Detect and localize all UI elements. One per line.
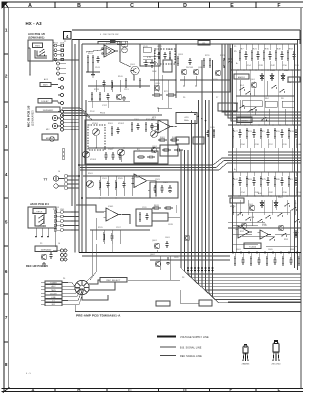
svg-text:TT: TT — [44, 178, 48, 182]
svg-text:TC4066: TC4066 — [249, 247, 256, 249]
svg-text:MIC: MIC — [52, 304, 56, 306]
svg-text:P6: P6 — [183, 97, 185, 99]
svg-text:Q602: Q602 — [150, 254, 155, 256]
svg-text:2SC1740: 2SC1740 — [271, 364, 281, 366]
svg-text:R301: R301 — [108, 123, 113, 125]
svg-text:R221: R221 — [220, 55, 225, 57]
svg-text:6: 6 — [5, 269, 8, 274]
wire P102 rail — [84, 114, 162, 116]
svg-text:R501: R501 — [88, 173, 93, 175]
junction dots trunk tops — [191, 111, 193, 113]
connector P101 pin column circles — [54, 44, 57, 47]
resistors C2 row — [177, 56, 179, 58]
svg-text:C103: C103 — [95, 67, 100, 69]
svg-text:B: B — [77, 3, 81, 9]
svg-text:R101: R101 — [88, 53, 93, 55]
svg-text:VR103: VR103 — [90, 159, 96, 161]
wire bend upper-left of opamp IC401 — [76, 205, 104, 212]
wires mic to main — [64, 115, 80, 117]
svg-text:IC101: IC101 — [106, 43, 111, 45]
caps row C4 bottom — [105, 152, 107, 155]
svg-text:R611: R611 — [154, 205, 159, 207]
svg-text:P5: P5 — [234, 46, 236, 48]
wire right section spine — [232, 44, 234, 252]
svg-text:C309: C309 — [108, 149, 113, 151]
svg-text:R403: R403 — [172, 137, 177, 139]
transistor Q503 — [278, 225, 284, 231]
svg-text:DECK: DECK — [37, 212, 44, 214]
corner diagonal bottom-left — [4, 388, 8, 391]
svg-text:Q601: Q601 — [152, 240, 157, 242]
wire trunk junction dots row — [187, 267, 189, 269]
svg-text:MPX: MPX — [151, 119, 156, 121]
svg-text:J3: J3 — [57, 102, 59, 104]
label box REC HR — [35, 246, 57, 252]
svg-text:Q301: Q301 — [250, 79, 255, 81]
wire right area bus y70 with junction dots — [230, 69, 301, 71]
svg-text:C201: C201 — [157, 46, 162, 48]
svg-text:Q101: Q101 — [130, 64, 135, 66]
wire right area bus y125 with junction dots — [228, 124, 301, 126]
connector mating dashed lines — [57, 45, 61, 47]
main pcb inner top edge — [82, 43, 298, 45]
svg-text:7: 7 — [5, 315, 8, 320]
svg-text:R113: R113 — [94, 89, 99, 91]
trimmer VR103 — [83, 151, 90, 158]
junction dots C2 — [175, 79, 177, 81]
opamp IC201 — [158, 120, 170, 133]
svg-text:R201: R201 — [168, 49, 173, 51]
svg-text:C521: C521 — [155, 179, 160, 181]
switch SW1 label box — [33, 43, 43, 48]
label P102 box on rail — [117, 41, 125, 45]
capacitor C105 — [145, 60, 147, 63]
svg-text:R305: R305 — [146, 119, 151, 121]
svg-text:TAPE: TAPE — [51, 289, 57, 292]
mic jack R — [52, 123, 57, 128]
opamp IC301 — [134, 174, 147, 188]
wire bundle signal lines middle — [80, 158, 301, 165]
wire rail y198 — [86, 197, 160, 199]
svg-text:LA3161: LA3161 — [241, 120, 247, 123]
svg-text:MIC: MIC — [46, 129, 50, 131]
svg-text:C611: C611 — [174, 257, 179, 259]
svg-text:C405: C405 — [210, 127, 215, 129]
signal label box ladder — [45, 281, 62, 284]
wires around Q101 — [119, 52, 121, 62]
svg-text:VOLTAGE SUPPLY LINE: VOLTAGE SUPPLY LINE — [180, 336, 209, 339]
connector mic pins dark — [61, 114, 64, 117]
svg-text:P8: P8 — [182, 277, 184, 279]
wires right midsection — [232, 233, 252, 235]
label box REC SELECT — [100, 278, 127, 283]
wires phono to pins — [61, 178, 65, 180]
svg-text:C517: C517 — [116, 227, 121, 229]
grid column ticks bottom — [54, 388, 56, 391]
svg-text:AUX PCB 1/5: AUX PCB 1/5 — [28, 32, 46, 36]
svg-text:(1DWXA952): (1DWXA952) — [32, 110, 35, 126]
resistor bottom C2 — [152, 94, 154, 96]
svg-text:AGC: AGC — [258, 192, 263, 195]
svg-text:P4: P4 — [63, 278, 65, 280]
svg-text:R505: R505 — [118, 178, 123, 180]
connector J101 pin column squares — [61, 44, 63, 46]
grid row ticks left — [4, 53, 8, 55]
diode D502 — [275, 200, 277, 208]
resistor comb above bus y70 — [239, 50, 241, 52]
wire bottom bundle line1 — [228, 301, 301, 303]
wires C3 lower — [236, 95, 294, 97]
wires phono bundle to main — [67, 175, 79, 177]
opamp IC101 — [104, 45, 115, 57]
svg-text:D: D — [183, 3, 187, 9]
switch SW1 contacts — [35, 50, 47, 58]
svg-text:P1: P1 — [64, 41, 66, 43]
junction dots jack wires — [71, 211, 73, 213]
svg-text:A: A — [31, 388, 35, 393]
rec hr components — [41, 254, 47, 260]
svg-text:R211: R211 — [205, 55, 210, 57]
svg-text:4.7K: 4.7K — [147, 57, 152, 59]
svg-text:4: 4 — [5, 172, 8, 177]
svg-text:3: 3 — [5, 124, 8, 129]
transistor package drawing 1 — [243, 345, 248, 362]
label box lower — [38, 99, 52, 104]
svg-text:IC501: IC501 — [262, 225, 267, 227]
capacitor C401 — [166, 241, 168, 244]
aux board box — [28, 40, 53, 61]
block outline EQ amp — [85, 120, 168, 164]
wire mid supply bus — [79, 252, 301, 254]
svg-text:B+: B+ — [236, 63, 238, 65]
legend sample line2 — [160, 346, 176, 348]
jack pcb pins P201 — [54, 211, 57, 214]
svg-text:Q204: Q204 — [198, 67, 203, 69]
switch S503 — [269, 239, 270, 240]
main pcb bottom edge — [75, 311, 247, 313]
svg-text:4 . REC MUTE SW: 4 . REC MUTE SW — [100, 34, 119, 36]
wire right edge drop from top rail — [299, 30, 301, 44]
svg-text:AUX: AUX — [43, 84, 48, 87]
box C9 right — [136, 209, 152, 226]
svg-text:J201: J201 — [60, 209, 64, 211]
resistors C1 second row — [91, 92, 93, 94]
wires to bus — [156, 250, 158, 253]
jack pcb ground arrows — [35, 228, 37, 236]
svg-text:R523: R523 — [163, 182, 168, 184]
comb between bus y172 and y196 — [232, 176, 234, 178]
dashed shield box C2 — [155, 49, 175, 64]
diode D501 — [261, 200, 263, 208]
wire bundle aux to main — [62, 108, 86, 112]
junction dots mic wires — [71, 115, 73, 117]
grid column ticks top — [54, 2, 56, 8]
svg-text:8: 8 — [5, 362, 8, 367]
box oscillator — [163, 60, 172, 72]
svg-text:D302: D302 — [284, 70, 289, 72]
svg-text:R105: R105 — [122, 49, 127, 51]
box top of trunk — [218, 103, 237, 111]
svg-text:R401: R401 — [160, 137, 165, 139]
short verticals y196-252 right — [239, 200, 241, 215]
wires down to rotary switch — [86, 230, 92, 282]
transistor Q603 — [184, 235, 190, 241]
diode D302 — [271, 73, 273, 81]
svg-text:B: B — [77, 388, 81, 393]
legend sample line3 — [160, 355, 176, 357]
svg-text:C301: C301 — [134, 119, 139, 121]
wires C2 — [159, 44, 161, 49]
switch S401 — [239, 107, 240, 108]
svg-text:S3-1: S3-1 — [240, 85, 244, 87]
svg-text:D: D — [183, 388, 187, 393]
svg-text:VR102: VR102 — [118, 123, 124, 125]
svg-text:JACK PCB 2/4: JACK PCB 2/4 — [30, 202, 49, 206]
transistor Q202 — [151, 147, 157, 153]
svg-text:VR101: VR101 — [92, 123, 98, 125]
opamp IC502 — [260, 230, 269, 239]
wires IC401 — [121, 215, 130, 225]
caps C2 — [189, 58, 191, 61]
svg-text:R609: R609 — [290, 249, 295, 251]
main pcb outline left edge — [71, 40, 73, 207]
svg-text:MPX: MPX — [152, 117, 157, 119]
resistor R540 — [232, 205, 234, 207]
svg-text:2: 2 — [5, 74, 8, 79]
svg-text:AN6551: AN6551 — [238, 76, 245, 79]
svg-text:AUX: AUX — [52, 285, 57, 288]
svg-text:(1DWXA951): (1DWXA951) — [28, 36, 44, 40]
diode D303 — [282, 73, 284, 81]
transistor Q601 — [155, 261, 161, 267]
svg-text:P201: P201 — [53, 209, 58, 211]
junction dots C4 — [95, 147, 97, 149]
wire rail y176 — [83, 175, 160, 177]
connector column upper circles — [57, 62, 60, 65]
svg-text:E: E — [229, 388, 232, 393]
transistor package drawing 2 — [273, 341, 279, 362]
opamp IC501 — [238, 226, 249, 238]
comb below bus y125 — [232, 128, 234, 130]
trimmer VR101 — [93, 129, 100, 136]
switch S302 — [271, 87, 272, 88]
more switches right midsection — [251, 109, 252, 110]
box right top C6 — [242, 101, 262, 107]
svg-text:P102: P102 — [100, 113, 106, 115]
deck label box — [33, 209, 46, 214]
svg-text:1DWXA952: 1DWXA952 — [43, 109, 54, 112]
svg-text:R109: R109 — [118, 76, 123, 78]
svg-text:P101: P101 — [53, 43, 58, 45]
svg-text:C215: C215 — [213, 79, 218, 81]
wires C4 — [95, 136, 97, 148]
wires input network — [86, 50, 104, 52]
svg-text:B+: B+ — [234, 169, 236, 171]
opamp IC401 — [106, 208, 118, 221]
svg-text:S4-1: S4-1 — [234, 103, 238, 105]
svg-text:P102: P102 — [90, 111, 95, 113]
svg-text:S5: S5 — [294, 203, 296, 205]
svg-text:C605: C605 — [268, 249, 273, 251]
svg-text:C: C — [128, 388, 132, 393]
label box AUX jack — [40, 83, 51, 87]
switch S501 — [284, 205, 285, 206]
svg-text:C615: C615 — [168, 224, 173, 226]
border frame outer lines — [2, 1, 303, 3]
wire right area bus y196 with junction dots — [228, 195, 301, 197]
wires C2 verticals left — [153, 48, 155, 96]
svg-text:1DWXA240: 1DWXA240 — [41, 249, 52, 252]
main pcb inner left edge — [78, 40, 80, 253]
main pcb outline top edge — [72, 39, 301, 41]
box filter block — [140, 44, 160, 66]
junction dots left rails — [78, 164, 80, 166]
svg-text:5: 5 — [5, 220, 8, 225]
crystal box X201 — [176, 113, 197, 124]
box C10 — [160, 145, 178, 156]
label box right — [288, 77, 300, 82]
transistor Q104 — [193, 69, 199, 75]
box lower middle left — [156, 301, 170, 306]
box lower middle — [199, 300, 212, 306]
svg-text:SW1: SW1 — [35, 46, 40, 48]
wire bundle right rows — [228, 151, 301, 153]
mic lower box — [42, 134, 58, 140]
svg-text:MUTE: MUTE — [230, 206, 236, 208]
jack pcb contacts — [35, 215, 46, 226]
transistor Q103 — [181, 69, 187, 75]
svg-text:HX - A3: HX - A3 — [26, 21, 43, 26]
svg-text:F: F — [277, 3, 280, 9]
rotary switch S2 — [75, 280, 89, 294]
box C11 — [150, 182, 178, 198]
svg-text:DOLBY: DOLBY — [41, 101, 49, 103]
svg-text:Q201: Q201 — [152, 146, 157, 148]
svg-text:C109: C109 — [143, 46, 148, 48]
label P5 box — [198, 41, 210, 46]
svg-text:4 - 5: 4 - 5 — [26, 373, 32, 375]
svg-text:2SC945: 2SC945 — [186, 67, 193, 69]
diode D503 — [295, 230, 297, 238]
wire top supply rail — [72, 29, 300, 31]
svg-text:C601: C601 — [165, 237, 170, 239]
svg-text:Q205: Q205 — [155, 83, 160, 85]
svg-text:REC: REC — [265, 98, 270, 100]
components C4 row — [111, 126, 113, 128]
transistor Q102 — [116, 94, 122, 100]
svg-text:P7: P7 — [216, 97, 218, 99]
junction dots C9 — [99, 197, 101, 199]
svg-text:J5: J5 — [57, 207, 59, 209]
svg-text:MHz: MHz — [184, 120, 188, 122]
svg-text:TUNER: TUNER — [50, 283, 57, 285]
svg-text:2SA933: 2SA933 — [242, 363, 251, 366]
wires around ladder to trunk — [128, 279, 180, 281]
svg-text:IC301: IC301 — [134, 177, 139, 179]
label boxes below y196 — [230, 198, 244, 203]
wires rotary to pcb — [89, 280, 100, 284]
jack pcb pins J201 — [61, 211, 64, 214]
transistor Q301 — [251, 82, 257, 88]
svg-text:J2: J2 — [57, 75, 59, 77]
svg-text:R601: R601 — [236, 249, 241, 251]
junction dots C1 — [119, 51, 121, 53]
svg-text:A: A — [28, 3, 32, 9]
line out pins — [62, 149, 65, 152]
svg-text:R217: R217 — [164, 91, 169, 93]
wire right area bus y172 — [228, 171, 301, 173]
label box TC4066 — [244, 243, 261, 249]
svg-text:S3-2: S3-2 — [287, 82, 291, 84]
svg-text:PRE-AMP PCB TDWXA951-A: PRE-AMP PCB TDWXA951-A — [76, 314, 121, 318]
svg-text:P3: P3 — [40, 243, 42, 245]
svg-text:D501: D501 — [278, 197, 283, 199]
transistor Q401 — [154, 243, 160, 249]
resistors C5 bottom row — [158, 139, 160, 141]
wires cluster C1 lower — [88, 85, 150, 87]
sub box C2 right — [176, 44, 230, 92]
wire bus below — [82, 255, 230, 257]
wires C1 second row — [88, 100, 130, 102]
caps C5 — [207, 130, 209, 133]
svg-text:R515: R515 — [98, 227, 103, 229]
box C4 bottom right — [134, 151, 158, 163]
wires C11 — [148, 189, 150, 191]
transistor Q501 curved — [249, 205, 255, 211]
transistor Q106 — [154, 85, 160, 91]
svg-text:C117: C117 — [102, 105, 107, 107]
wire bundle upper right horizontals — [222, 44, 301, 112]
wires C5 — [150, 125, 158, 127]
wires jack pcb to main — [64, 211, 80, 213]
svg-text:J4: J4 — [58, 171, 60, 173]
boxes top right C6 — [265, 101, 277, 107]
transistor Q105 — [215, 70, 221, 76]
grid ref box 4 — [64, 32, 72, 40]
label box LA3161 — [237, 117, 252, 123]
phono pins — [65, 175, 68, 178]
wire vertical trunk bundle — [181, 150, 301, 274]
capacitor C601 — [167, 257, 169, 260]
trimmer VR104 — [151, 131, 158, 138]
junction dots C5 — [175, 126, 177, 128]
svg-text:Q203: Q203 — [178, 54, 183, 56]
legend sample thick line — [157, 336, 176, 338]
phono jack — [53, 176, 58, 181]
svg-text:F: F — [278, 388, 281, 393]
verticals C9 — [99, 176, 101, 196]
svg-text:E: E — [230, 3, 234, 9]
cluster above Q603 — [152, 207, 154, 209]
resistor R105 — [125, 78, 127, 80]
svg-text:REC SIGNAL LINE: REC SIGNAL LINE — [180, 355, 202, 358]
svg-text:DOLBY: DOLBY — [50, 293, 57, 295]
wires ladder to rotary switch — [68, 283, 76, 289]
svg-text:B.B. SIGNAL LINE: B.B. SIGNAL LINE — [180, 347, 202, 350]
svg-text:REC SELECT: REC SELECT — [106, 280, 121, 282]
resistor R feedback — [108, 41, 110, 43]
boxes C5 bottom — [176, 137, 189, 144]
transistor Q101 — [131, 66, 139, 74]
component chain right of opamp — [122, 47, 128, 53]
svg-text:C113: C113 — [124, 89, 129, 91]
svg-text:Q501: Q501 — [248, 204, 253, 206]
svg-text:REC HR PCB 3/6: REC HR PCB 3/6 — [26, 264, 48, 268]
wire out IC301 — [147, 181, 156, 196]
components right of Q202 — [162, 149, 164, 151]
trimmer VR201 — [87, 181, 94, 188]
svg-text:SW2: SW2 — [32, 213, 36, 215]
